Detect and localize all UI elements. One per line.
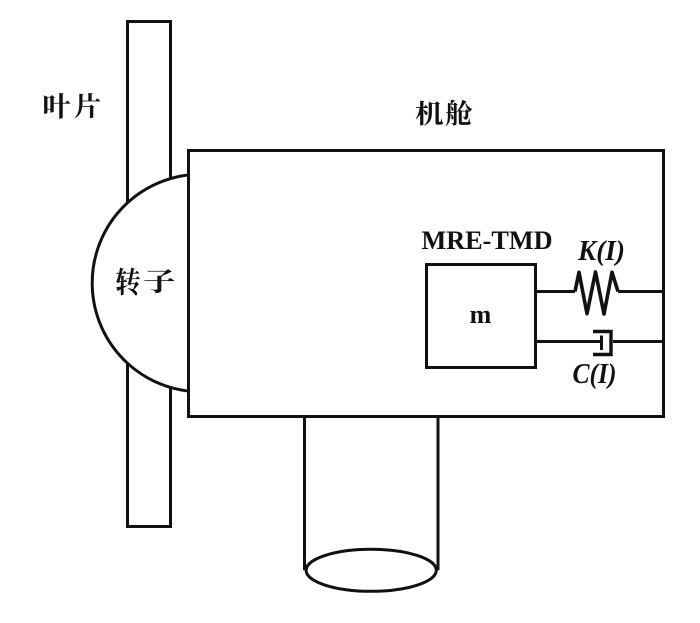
svg-text:K(I): K(I) xyxy=(577,235,625,267)
svg-text:MRE-TMD: MRE-TMD xyxy=(422,226,553,255)
svg-text:m: m xyxy=(470,300,492,329)
svg-text:C(I): C(I) xyxy=(573,358,617,390)
